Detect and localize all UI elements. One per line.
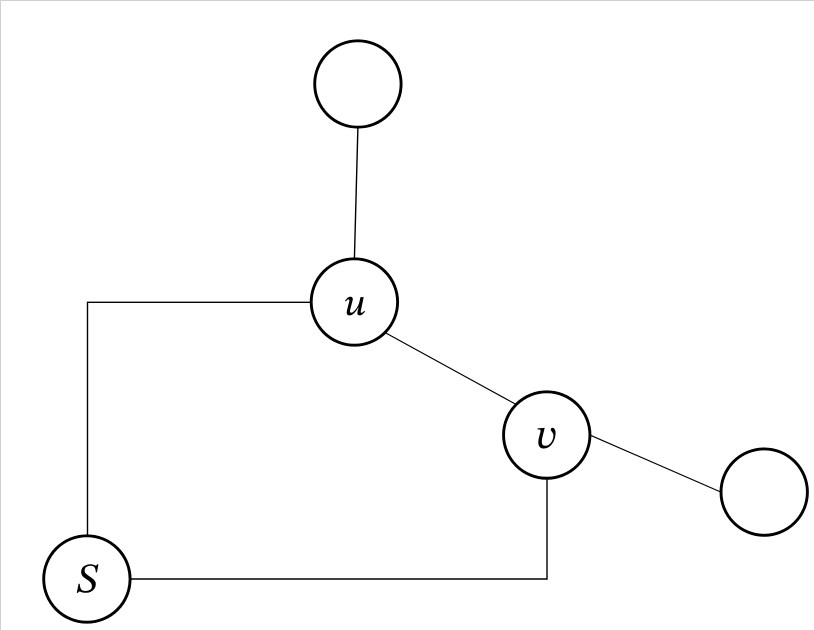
node v label xyxy=(538,428,556,449)
node: top unlabeled circle xyxy=(315,41,401,127)
wire: edge u (south-east anchor) to v (north-west anchor) xyxy=(385,333,516,405)
node S label xyxy=(77,564,99,593)
node v xyxy=(504,392,590,478)
node: right unlabeled circle xyxy=(721,449,807,535)
wire: edge v (east anchor) to right node (west anchor) xyxy=(590,435,721,492)
node u label xyxy=(345,297,365,316)
node S xyxy=(44,536,130,622)
wire: edge from top node (south anchor) to u (north anchor) xyxy=(354,127,358,259)
wire: orthogonal edge u (west anchor) left then down to S (north anchor) xyxy=(88,302,312,536)
node u xyxy=(311,259,397,345)
wire: orthogonal edge S (east anchor) right then up to v (south anchor) xyxy=(130,478,547,579)
